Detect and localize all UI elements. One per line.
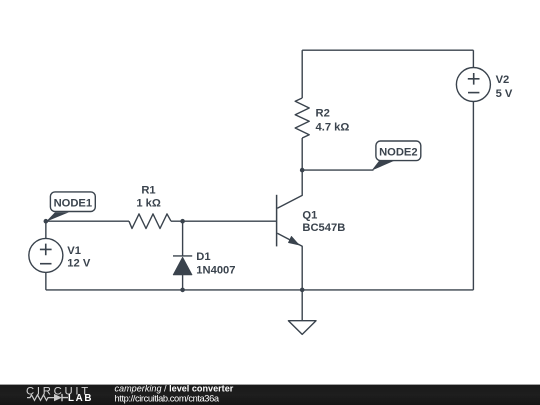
flag NODE1 (46, 192, 95, 222)
svg-text:V1: V1 (67, 245, 81, 257)
svg-text:NODE1: NODE1 (54, 198, 93, 210)
voltage source V1 (29, 238, 63, 272)
node dot emitter/ground (300, 288, 305, 293)
flag NODE2 (372, 141, 421, 171)
wire base right (171, 220, 277, 222)
node dot V1/R1 (44, 219, 49, 224)
voltage source V2 (456, 68, 490, 102)
diode D1 (173, 256, 192, 275)
resistor R1 (129, 214, 171, 229)
svg-text:4.7 kΩ: 4.7 kΩ (316, 122, 350, 134)
wire V2 bottom lead (472, 102, 474, 290)
label Q1 (302, 210, 345, 235)
label D1 (196, 251, 235, 277)
svg-text:http://circuitlab.com/cnta36a: http://circuitlab.com/cnta36a (115, 394, 220, 404)
wire R2 top lead (301, 50, 303, 98)
wire D1 bottom lead (182, 275, 184, 290)
wire base left (46, 220, 129, 222)
wire V1 bottom lead (45, 272, 47, 290)
svg-text:R2: R2 (316, 108, 330, 120)
wire collector (277, 170, 302, 208)
svg-text:1 kΩ: 1 kΩ (136, 198, 161, 210)
node dot D1 top (180, 219, 185, 224)
label V2 (496, 74, 513, 100)
svg-text:1N4007: 1N4007 (196, 265, 235, 277)
svg-text:5 V: 5 V (496, 88, 513, 100)
svg-text:BC547B: BC547B (302, 222, 345, 234)
transistor Q1 base bar (276, 195, 278, 247)
label R1 (136, 185, 161, 210)
svg-text:R1: R1 (141, 185, 155, 197)
node dot D1 bottom (180, 288, 185, 293)
wire R2 bottom lead (301, 138, 303, 170)
logo squiggle resistor (27, 395, 54, 401)
wire top rail (302, 49, 473, 51)
wire V2 top lead (472, 50, 474, 67)
wire node2 stub (302, 169, 373, 171)
ground (288, 321, 316, 335)
svg-text:LAB: LAB (68, 393, 93, 404)
wire bottom rail (46, 289, 474, 291)
svg-text:12 V: 12 V (67, 258, 91, 270)
wire emitter (277, 233, 302, 290)
label V1 (67, 245, 91, 270)
svg-text:camperking / level converter: camperking / level converter (115, 384, 234, 394)
logo diode (54, 394, 62, 401)
label R2 (316, 108, 350, 134)
svg-text:NODE2: NODE2 (379, 147, 418, 159)
svg-text:D1: D1 (196, 251, 210, 263)
node dot collector/NODE2 (300, 168, 305, 173)
wire D1 top lead (182, 221, 184, 256)
svg-text:Q1: Q1 (302, 210, 317, 222)
svg-text:V2: V2 (496, 74, 510, 86)
wire V1 top lead (45, 221, 47, 238)
resistor R2 (295, 98, 309, 138)
wire ground lead (301, 290, 303, 321)
footer bar (0, 385, 540, 405)
transistor Q1 emitter arrow (289, 236, 299, 244)
